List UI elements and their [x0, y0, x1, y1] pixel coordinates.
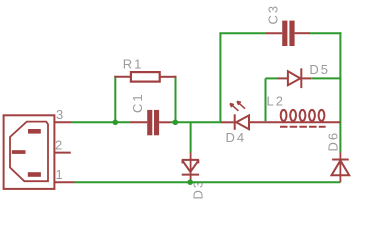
wire R1 left vertical — [114, 76, 116, 123]
wire net middle segment — [171, 121, 221, 123]
inductor L2 core dashed line — [280, 126, 326, 128]
svg-text:3: 3 — [56, 107, 63, 122]
wire C3 top horizontal right — [310, 32, 341, 34]
wire net top horizontal left — [71, 121, 129, 123]
connector X1 inner outline — [10, 122, 48, 182]
wire R1 right vertical — [175, 76, 177, 123]
capacitor C3 leads — [266, 32, 282, 34]
wire bottom net — [75, 181, 341, 183]
wire right vertical — [339, 32, 341, 152]
LED D4 arrows — [230, 101, 245, 111]
pin 2 stub — [55, 152, 71, 154]
LED D4 — [235, 114, 249, 130]
wire C3 branch vertical — [219, 33, 221, 122]
svg-text:2: 2 — [55, 137, 62, 152]
connector X1 body — [4, 115, 55, 189]
svg-text:1: 1 — [56, 167, 63, 182]
svg-text:D4: D4 — [226, 130, 247, 145]
inductor L2 wire through — [281, 121, 340, 123]
LED D4 lead left — [221, 121, 234, 123]
wire C3 top horizontal left — [219, 32, 266, 34]
svg-text:L2: L2 — [267, 94, 285, 109]
pin 3 stub — [55, 121, 72, 123]
svg-text:D5: D5 — [309, 62, 330, 77]
svg-text:C1: C1 — [130, 92, 145, 113]
svg-text:R1: R1 — [123, 56, 144, 71]
LED D4 lead right / inductor L2 lead left — [250, 121, 281, 123]
wire D3 branch vertical — [190, 122, 192, 152]
node junction D3 bottom — [187, 179, 193, 185]
node junction right — [173, 120, 179, 126]
wire D5 horizontal right — [311, 77, 341, 79]
resistor R1 leads — [114, 76, 131, 78]
pin 1 stub — [55, 181, 75, 183]
capacitor C1 plates — [147, 110, 152, 135]
svg-text:D6: D6 — [326, 131, 341, 152]
diode D3 (zener) — [182, 152, 199, 181]
node junction left — [113, 120, 119, 126]
diode D5 leads — [278, 77, 288, 79]
wire D5 branch left vertical — [265, 78, 267, 121]
capacitor C3 plates — [282, 21, 287, 46]
svg-text:C3: C3 — [266, 4, 281, 25]
connector X1 bottom contact bar — [28, 172, 41, 177]
wire D5 horizontal left — [266, 77, 279, 79]
inductor L2 — [281, 110, 325, 121]
diode D5 — [288, 68, 301, 88]
resistor R1 — [131, 72, 160, 82]
diode D6 — [332, 152, 350, 182]
connector X1 middle contact bar — [12, 150, 26, 154]
capacitor C1 leads — [129, 121, 147, 123]
connector X1 top contact bar — [28, 129, 41, 134]
